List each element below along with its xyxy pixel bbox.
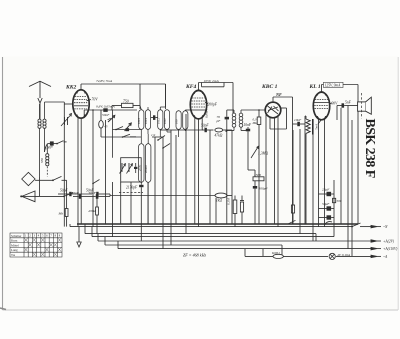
svg-text:2000: 2000 [137,164,141,171]
KBC1 cathode leads [266,113,278,227]
svg-text:5nF: 5nF [345,101,352,105]
capacitor 50pF [72,191,96,199]
resistor 47k vertical left [88,199,98,234]
svg-text:Mb: Mb [58,212,64,216]
resistor 750 [112,99,140,110]
long vertical wires right [300,106,352,257]
svg-text:200pF: 200pF [208,103,218,107]
variable capacitor C1 tuning [61,104,73,227]
bandfilter BF1 coil pair b [156,84,171,137]
KF4 leads down [186,108,210,233]
capacitor 10nF detector [241,123,252,170]
svg-text:Kurz: Kurz [11,239,18,243]
label 105V 2mA [199,79,234,113]
trimmer 70pF [216,110,235,224]
output transformer choke [305,116,313,224]
switch NF bottom [288,220,296,224]
svg-text:KF4: KF4 [185,84,196,90]
wire: antenna branch to band switch [45,141,67,152]
svg-text:BSK 238 F: BSK 238 F [362,119,377,178]
gang dashed link [119,192,143,194]
bandfilter BF1 coil pair c [175,110,188,137]
svg-text:1013: 1013 [137,118,141,125]
tube KBC1 [261,84,281,118]
resistor 0,1M AVC [227,196,237,227]
capacitor between BF1 pairs [151,115,158,120]
label 90V [330,101,339,105]
capacitor 500pF [253,186,269,224]
band switch contacts mid [113,110,142,158]
resistor 100 grid KF4 [185,109,190,111]
electrolytic caps 25uF 50uF [319,135,335,227]
resistor 45 oval [99,110,142,137]
trimmer arrow osc with pad [125,123,132,131]
antenna coupling transformer L1 [38,102,64,177]
resistor 1k oval bottom [104,193,232,224]
svg-text:50pF: 50pF [201,124,209,128]
svg-text:MΩ: MΩ [252,121,259,125]
svg-text:ZF = 468 kHz: ZF = 468 kHz [183,253,207,258]
capacitor block AVC [240,196,244,225]
scan page edge [0,57,398,311]
resistor 500 [333,198,342,203]
lamp 4V 0,16A [329,253,351,260]
tube KF4 [185,83,207,119]
wire: cathode line [84,109,137,111]
capacitor 5nF [337,101,352,121]
svg-text:Mittel: Mittel [11,243,19,247]
switch contacts right of osc [151,133,170,149]
wire: KF4 cathode row [160,129,203,131]
svg-text:KK2: KK2 [65,85,76,91]
ground [77,227,81,247]
terminal -N [371,225,388,229]
svg-text:1500: 1500 [254,173,261,177]
coil 550 [40,144,49,166]
label 70V [87,98,99,102]
capacitor 50pF KF4 [201,124,214,133]
wire: BF2 to KBC1 grid [226,110,266,132]
svg-text:550: 550 [40,158,44,163]
capacitor 10nF tone [293,118,306,126]
IF transformer BF2 coil pair [232,110,243,131]
resistor 47k KF4 [210,128,232,224]
wire vertical x93 [92,109,99,226]
capacitor 50nF cathode [102,108,110,117]
speaker [348,93,371,119]
svg-text:100: 100 [175,119,179,124]
tube KK2 [65,84,89,118]
svg-text:20000: 20000 [144,165,148,173]
antenna [29,81,51,119]
svg-text:2170pF: 2170pF [126,185,138,189]
label 125V 9mA [322,82,359,224]
long vertical wires mid-left [106,120,172,249]
capacitor 2170pF [126,185,144,195]
pickup diamond terminal TA1 [22,172,67,196]
svg-text:7mA: 7mA [315,123,319,130]
resistor 1500 [248,170,264,186]
svg-text:KBC 1: KBC 1 [261,84,278,90]
svg-text:TA: TA [11,253,16,257]
svg-text:1kΩ: 1kΩ [216,199,222,203]
switch mains [324,222,332,225]
resistor small left power [291,130,294,224]
fuse KN61 [245,249,328,259]
svg-text:50μF: 50μF [322,202,330,206]
svg-text:1012: 1012 [156,118,160,125]
svg-text:750: 750 [123,99,129,103]
bus line 8 lamp [245,249,371,257]
KL1 cathode leads [315,118,325,227]
tube KL1 [309,84,330,124]
bus line 2 [70,223,371,228]
svg-text:KL 1: KL 1 [309,84,321,90]
label NF [273,92,293,224]
svg-text:NF: NF [275,92,282,97]
trimmer arrow mixer [108,115,115,122]
svg-text:+A(2V): +A(2V) [383,240,395,244]
svg-text:50nF: 50nF [102,113,110,117]
resistor 0,3M [252,109,261,129]
svg-text:1014: 1014 [144,118,148,125]
bandfilter BF1 coil pair a [137,106,150,144]
band table [10,233,62,257]
wire: KK2 plate to bandfilter [81,84,166,109]
bus line 3 [85,224,316,241]
capacitor 50nF pickup [89,191,111,199]
bus line 7 [118,241,371,249]
svg-text:47kΩ: 47kΩ [215,134,223,138]
trimmer box [120,158,142,182]
bus line 5 [98,234,371,241]
svg-text:25μF: 25μF [322,188,330,192]
pickup arrow terminal TA2 [20,191,79,202]
capacitor KF4 grid [175,135,177,224]
oscillator coil pair [137,134,151,224]
resistor Mb [58,180,69,226]
svg-text:+A(110V): +A(110V) [383,247,398,251]
gang link dashes below coil [46,167,48,177]
switch on cathode return [122,134,136,138]
svg-text:KN61: KN61 [271,251,280,255]
terminal +A2 [371,240,395,244]
svg-text:10nF: 10nF [244,123,252,127]
terminal +A110 [371,247,398,251]
capacitor 50pF [58,189,92,197]
KBC1 plate loop [270,108,287,129]
svg-text:pF: pF [216,119,222,123]
capacitor 50nF [86,189,104,197]
bus chassis line [77,223,358,225]
svg-text:47kΩ: 47kΩ [88,209,96,213]
label 200pF [205,102,218,106]
bus line 4 [92,227,334,237]
svg-text:1011: 1011 [163,118,167,124]
svg-text:70V: 70V [92,98,99,102]
svg-text:90V: 90V [332,101,339,105]
svg-text:Schalter: Schalter [11,234,22,238]
potentiometer 1,3M volume [251,129,268,224]
bus line 6 [105,237,282,257]
terminal -A [371,255,388,259]
svg-text:~N: ~N [383,225,388,229]
svg-text:Lang: Lang [11,248,18,252]
KK2 cathode leads [78,110,84,227]
svg-text:500pF: 500pF [259,187,269,191]
svg-text:10nF: 10nF [294,118,302,122]
